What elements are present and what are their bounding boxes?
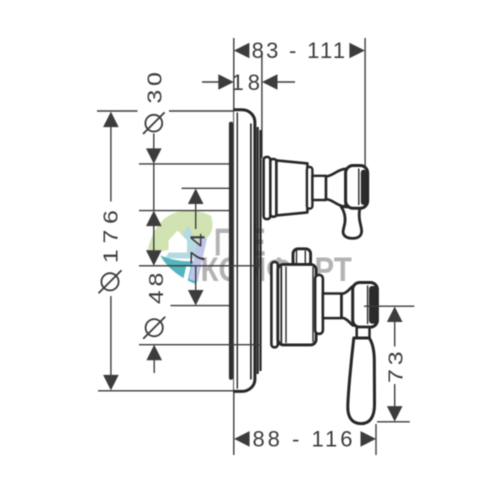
- rosette2 flange: [271, 262, 277, 347]
- dim 176 top ext line: [97, 110, 138, 112]
- logo teal swoosh: [161, 256, 198, 285]
- arrow 48 down: [146, 250, 162, 265]
- stem2: [323, 294, 342, 319]
- svg-text:30: 30: [144, 68, 166, 103]
- dim 176 line: [110, 123, 112, 202]
- logo periwinkle band: [189, 236, 207, 283]
- arrow 18 right: [262, 74, 278, 90]
- arrow 83-111 right: [349, 43, 365, 59]
- arrow 30 down: [146, 148, 162, 164]
- lever grip: [348, 338, 375, 424]
- diverter knob inner lines: [296, 251, 298, 264]
- plate front line 3: [259, 130, 261, 371]
- T bar dark cap: [361, 170, 367, 205]
- arrow 48 up: [146, 345, 162, 361]
- arrow 18 left: [218, 74, 234, 90]
- plate front line 2: [257, 127, 259, 374]
- ext line right 88-116: [375, 424, 377, 455]
- plate inner line: [236, 113, 238, 389]
- dim 73 line: [394, 322, 396, 347]
- svg-text:176: 176: [100, 205, 122, 264]
- dim 74 ext lines: [182, 187, 230, 189]
- lever knob dark cap: [369, 286, 377, 324]
- arrow 73 down: [387, 406, 403, 422]
- svg-text:83 - 111: 83 - 111: [252, 38, 348, 63]
- arrow 176 down: [103, 375, 119, 391]
- arrow 176 up: [103, 112, 119, 128]
- lever collar: [357, 327, 370, 338]
- diameter symbol 30: [145, 115, 162, 132]
- arrow 30 up: [146, 211, 162, 227]
- svg-text:48: 48: [145, 269, 167, 304]
- dim 74 line: [195, 204, 197, 230]
- rosette2 body: [278, 264, 316, 345]
- arrow 83-111 left: [234, 43, 250, 59]
- rosette2 cap bulge: [315, 275, 323, 334]
- dim 176 bottom ext line: [98, 390, 234, 392]
- svg-text:18: 18: [232, 70, 264, 95]
- stem1: [312, 176, 326, 200]
- lever knob inner line: [367, 286, 369, 325]
- logo white house: [169, 231, 188, 253]
- lever knob: [353, 283, 378, 328]
- logo teal house arrow: [165, 226, 204, 259]
- rosette1 body: [276, 160, 307, 215]
- dim 48 ext line bottom: [139, 344, 262, 346]
- svg-text:74: 74: [187, 229, 209, 264]
- diverter knob: [293, 249, 311, 267]
- lever hub: [342, 286, 354, 326]
- rosette1 cap: [307, 167, 313, 209]
- ext line right 83-111: [364, 38, 366, 171]
- watermark logo: [147, 211, 212, 284]
- arrow 74 down: [188, 290, 204, 306]
- dim 73 ext line bottom: [377, 421, 410, 423]
- logo green leaf: [147, 211, 212, 253]
- logo white notch: [183, 266, 191, 284]
- dim 30 stubs: [153, 134, 155, 150]
- rosette1 flange2: [270, 159, 276, 217]
- diameter symbol 48: [146, 319, 163, 336]
- dim 18 tails: [202, 81, 219, 83]
- T hub: [326, 169, 346, 207]
- dim 48 ext line top: [139, 265, 262, 267]
- dim 30 ext lines: [139, 163, 234, 165]
- arrow 74 up: [188, 189, 204, 205]
- T grip: [341, 206, 362, 238]
- diameter symbol 176: [101, 273, 118, 290]
- dim 73 ext line top: [364, 305, 414, 307]
- arrow 73 up: [387, 307, 403, 323]
- plate sleeve: [229, 122, 233, 380]
- T bar inner line: [358, 169, 360, 206]
- T bar: [346, 166, 368, 209]
- ext line 18: [261, 55, 263, 158]
- arrow 88-116 left: [234, 431, 250, 447]
- arrow 88-116 right: [361, 431, 377, 447]
- svg-text:88 - 116: 88 - 116: [252, 426, 355, 451]
- rosette1 flange1: [264, 157, 271, 219]
- plate front line 1: [250, 124, 252, 380]
- wall extension line: [233, 38, 235, 455]
- svg-text:73: 73: [385, 348, 407, 383]
- rosette2 inner lines: [280, 267, 282, 344]
- plate disc: [234, 110, 255, 392]
- dim 48 stub: [153, 360, 155, 373]
